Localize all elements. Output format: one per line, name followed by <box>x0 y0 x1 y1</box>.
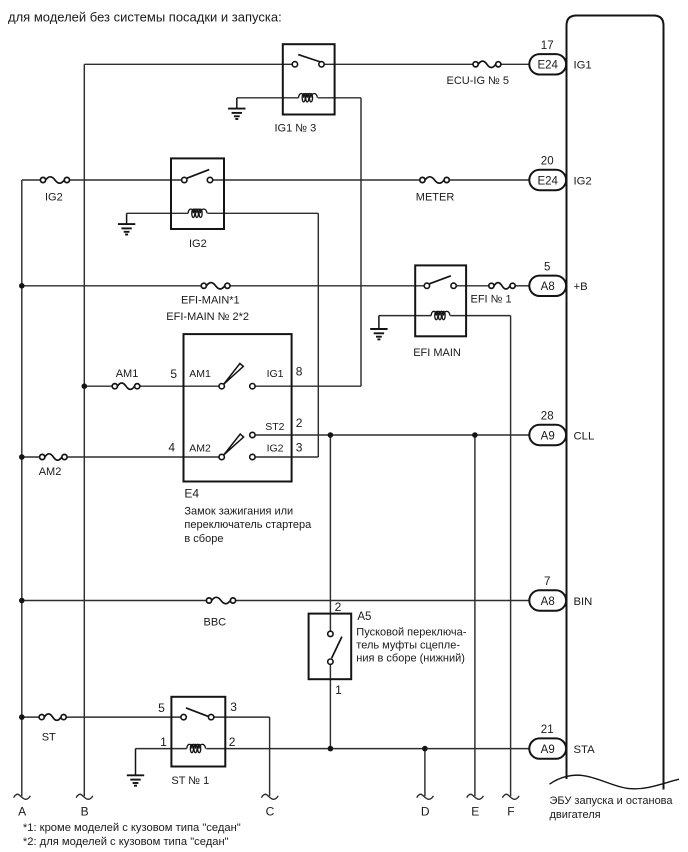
switch blade of A5 <box>332 637 342 659</box>
svg-text:A: A <box>18 805 26 819</box>
svg-text:28: 28 <box>541 411 554 423</box>
svg-text:4: 4 <box>168 441 175 455</box>
svg-text:E24: E24 <box>537 60 558 72</box>
wire: row IG2 left feed <box>22 179 41 181</box>
wire C: from ST N1 switch output down <box>269 717 271 796</box>
wire: row BBC/BIN from node A to ECU pin 7 <box>22 600 207 602</box>
wire row ST from node A to fuse ST <box>22 716 39 718</box>
svg-text:B: B <box>81 805 89 819</box>
svg-text:5: 5 <box>158 701 165 715</box>
svg-text:21: 21 <box>541 724 554 736</box>
wire row ST fuse to relay ST N1 pin5 <box>66 716 181 718</box>
switch blade of relay ST No.1 <box>186 708 209 717</box>
wire row IG2 from E4 pin3 to riser <box>255 456 318 458</box>
fuse METER <box>420 177 450 183</box>
svg-text:тель муфты сцепле-: тель муфты сцепле- <box>356 639 460 651</box>
wire: row AM1 from node on B <box>84 385 112 387</box>
node A / EFI-MAIN row junction <box>19 283 25 289</box>
wire: IG1 N3 coil row to ground stub and riser <box>237 97 299 99</box>
wire row IG1 switch E4 pin8 to riser <box>255 385 361 387</box>
fuse EFI No.1 <box>489 283 515 289</box>
svg-text:STA: STA <box>574 744 596 756</box>
connector break symbol F <box>502 794 519 799</box>
svg-text:*1: кроме моделей с кузовом ти: *1: кроме моделей с кузовом типа "седан" <box>23 822 241 834</box>
connector pin 21 (A9) net STA <box>529 724 595 759</box>
fuse EFI-MAIN <box>201 283 230 289</box>
connector pin 28 (A9) net CLL <box>529 411 594 446</box>
node STA row / wire D junction <box>422 746 428 752</box>
svg-text:F: F <box>507 805 514 819</box>
switch blade of relay EFI MAIN <box>429 276 451 284</box>
svg-text:AM1: AM1 <box>116 368 139 380</box>
svg-text:2: 2 <box>335 600 342 614</box>
wire row from ST N1 pin3 to wire C <box>214 716 270 718</box>
connector break symbol A <box>14 794 31 799</box>
svg-text:17: 17 <box>541 40 554 52</box>
relay EFI MAIN <box>415 265 466 336</box>
connector break symbol D <box>417 794 434 799</box>
wire: row AM2 from node A <box>22 456 40 458</box>
fuse ST <box>39 714 66 720</box>
wire row IG2 fuse METER to ECU pin 20 <box>449 179 529 181</box>
svg-text:C: C <box>266 805 275 819</box>
svg-text:AM2: AM2 <box>189 443 211 455</box>
svg-text:IG2: IG2 <box>189 238 207 250</box>
fuse AM2 <box>40 454 67 460</box>
ECU (engine start/stop control unit) outline <box>567 16 664 790</box>
wire row AM2 fuse to switch E4 pin4 <box>67 456 219 458</box>
ECU torn-edge wave <box>550 775 680 789</box>
svg-text:ST: ST <box>42 732 56 744</box>
svg-text:3: 3 <box>296 441 303 455</box>
fuse BBC <box>206 597 235 603</box>
wire row ST2/CLL from E4 pin2 to ECU pin 28 <box>255 434 529 436</box>
relay IG1 No.3 <box>283 44 335 114</box>
svg-text:EFI-MAIN*1: EFI-MAIN*1 <box>181 294 240 306</box>
wire: IG2 relay coil row <box>127 212 189 214</box>
connector pin 20 (E24) net IG2 <box>529 156 591 191</box>
coil of relay IG2 <box>188 209 207 217</box>
wire: row EFI-MAIN from node A <box>22 285 201 287</box>
wire: riser from IG1 N3 coil down to E4 pin 8 <box>360 98 362 386</box>
svg-text:2: 2 <box>229 735 236 749</box>
svg-text:EFI-MAIN № 2*2: EFI-MAIN № 2*2 <box>166 311 249 323</box>
svg-text:ЭБУ запуска и останова: ЭБУ запуска и останова <box>550 795 674 807</box>
svg-text:IG2: IG2 <box>45 191 63 203</box>
svg-text:ния в сборе (нижний): ния в сборе (нижний) <box>356 652 465 664</box>
ground (relay IG2 coil) <box>118 213 135 234</box>
wire E: from CLL row down <box>474 435 476 796</box>
node A / ST row junction <box>19 714 25 720</box>
wire: row STA: ST N1 coil pin2 to ECU pin 21 <box>136 748 187 750</box>
svg-text:двигателя: двигателя <box>550 809 601 821</box>
svg-text:5: 5 <box>170 367 177 381</box>
svg-text:AM1: AM1 <box>189 368 211 380</box>
svg-text:D: D <box>421 805 430 819</box>
svg-text:Замок зажигания или: Замок зажигания или <box>184 505 293 517</box>
svg-text:AM2: AM2 <box>39 466 62 478</box>
svg-text:BIN: BIN <box>574 596 593 608</box>
node STA row / A5 branch junction <box>328 746 334 752</box>
fuse ECU-IG No.5 <box>473 61 501 67</box>
svg-text:1: 1 <box>335 683 342 697</box>
svg-text:A9: A9 <box>541 430 555 442</box>
switch blade of relay IG2 <box>187 170 209 179</box>
svg-text:*2: для моделей с кузовом типа: *2: для моделей с кузовом типа "седан" <box>23 836 229 848</box>
svg-text:1: 1 <box>160 735 167 749</box>
svg-text:A9: A9 <box>541 744 555 756</box>
ground (relay EFI MAIN coil) <box>370 316 387 340</box>
ground (relay IG1 No.3 coil) <box>228 98 245 119</box>
connector pin 17 (E24) net IG1 <box>529 40 591 75</box>
clutch start switch A5 <box>309 614 352 680</box>
svg-text:IG1: IG1 <box>267 368 284 380</box>
switch blade of relay IG1 No.3 <box>298 55 320 62</box>
fuse IG2 <box>40 177 69 183</box>
wire D: from STA row down <box>424 749 426 797</box>
key wedge AM1-IG1 <box>224 364 244 385</box>
coil of relay ST No.1 <box>187 744 206 752</box>
node CLL row / A5 branch junction <box>328 432 334 438</box>
svg-text:EFI № 1: EFI № 1 <box>471 293 512 305</box>
wire row +B relay EFI MAIN to fuse EFI N1 <box>456 285 489 287</box>
node CLL row / wire E junction <box>472 432 478 438</box>
svg-text:EFI MAIN: EFI MAIN <box>413 347 461 359</box>
svg-text:2: 2 <box>296 416 303 430</box>
svg-text:в сборе: в сборе <box>184 533 223 545</box>
connector pin 7 (A8) net BIN <box>529 576 592 611</box>
svg-text:переключатель стартера: переключатель стартера <box>184 519 312 531</box>
wire A: left feed bus <box>21 180 23 796</box>
svg-text:ST № 1: ST № 1 <box>171 775 209 787</box>
connector break symbol E <box>467 794 484 799</box>
svg-text:для моделей без системы посадк: для моделей без системы посадки и запуск… <box>8 10 282 25</box>
wire row EFI-MAIN fuse to relay EFI MAIN <box>230 285 424 287</box>
svg-text:IG1: IG1 <box>574 60 592 72</box>
svg-text:3: 3 <box>230 700 237 714</box>
node A / BBC row junction <box>19 598 25 604</box>
connector break symbol C <box>261 794 278 799</box>
svg-text:ECU-IG № 5: ECU-IG № 5 <box>447 75 510 87</box>
svg-text:+B: +B <box>574 281 588 293</box>
node B / AM1 row junction <box>82 383 88 389</box>
ground (relay ST No.1 coil) <box>127 749 144 786</box>
svg-text:8: 8 <box>296 365 303 379</box>
coil of relay IG1 No.3 <box>299 94 318 102</box>
ignition switch E4 <box>184 334 292 481</box>
wire row IG2 fuse to relay IG2 <box>70 179 182 181</box>
svg-text:E: E <box>471 805 479 819</box>
wire: bus row IG1 from node B to relay IG1 N3 <box>84 63 292 65</box>
key wedge AM2-ST2 <box>224 434 244 455</box>
relay ST No.1 <box>171 697 225 767</box>
svg-text:METER: METER <box>416 192 455 204</box>
svg-text:A5: A5 <box>357 611 371 623</box>
svg-text:5: 5 <box>544 261 550 273</box>
wire row BIN fuse BBC to ECU pin 7 <box>236 600 530 602</box>
svg-text:A8: A8 <box>541 281 555 293</box>
svg-text:CLL: CLL <box>574 430 595 442</box>
wire: EFI MAIN relay coil row <box>379 315 431 317</box>
wire row IG1 fuse to ECU pin 17 <box>501 63 530 65</box>
node A / AM2 row junction <box>19 454 25 460</box>
wire row +B fuse EFI N1 to ECU pin 5 <box>515 285 529 287</box>
svg-text:7: 7 <box>544 576 550 588</box>
wire B: second feed bus <box>83 64 85 796</box>
svg-text:ST2: ST2 <box>265 421 284 433</box>
relay IG2 <box>171 158 224 229</box>
svg-text:20: 20 <box>541 156 554 168</box>
svg-text:BBC: BBC <box>204 617 227 629</box>
fuse AM1 <box>112 383 140 389</box>
svg-text:E24: E24 <box>537 175 558 187</box>
svg-text:E4: E4 <box>184 486 199 500</box>
wire: A5 upper lead from CLL row <box>329 435 331 631</box>
svg-text:IG1 № 3: IG1 № 3 <box>275 123 317 135</box>
svg-text:A8: A8 <box>541 596 555 608</box>
connector break symbol B <box>76 794 93 799</box>
wire row IG1 relay to fuse ECU-IG <box>324 63 473 65</box>
wire F: from EFI MAIN coil down <box>510 316 512 797</box>
wire: riser from IG2 relay coil down to E4 pin 3 <box>317 213 319 457</box>
coil of relay EFI MAIN <box>431 311 450 319</box>
wire row AM1 fuse to switch E4 pin5 <box>140 385 219 387</box>
wire: A5 lower lead to STA row <box>329 665 331 749</box>
connector pin 5 (A8) net +B <box>529 261 587 296</box>
wire row IG2 relay to fuse METER <box>213 179 420 181</box>
svg-text:Пусковой переключа-: Пусковой переключа- <box>356 626 466 638</box>
svg-text:IG2: IG2 <box>267 443 284 455</box>
svg-text:IG2: IG2 <box>574 175 592 187</box>
